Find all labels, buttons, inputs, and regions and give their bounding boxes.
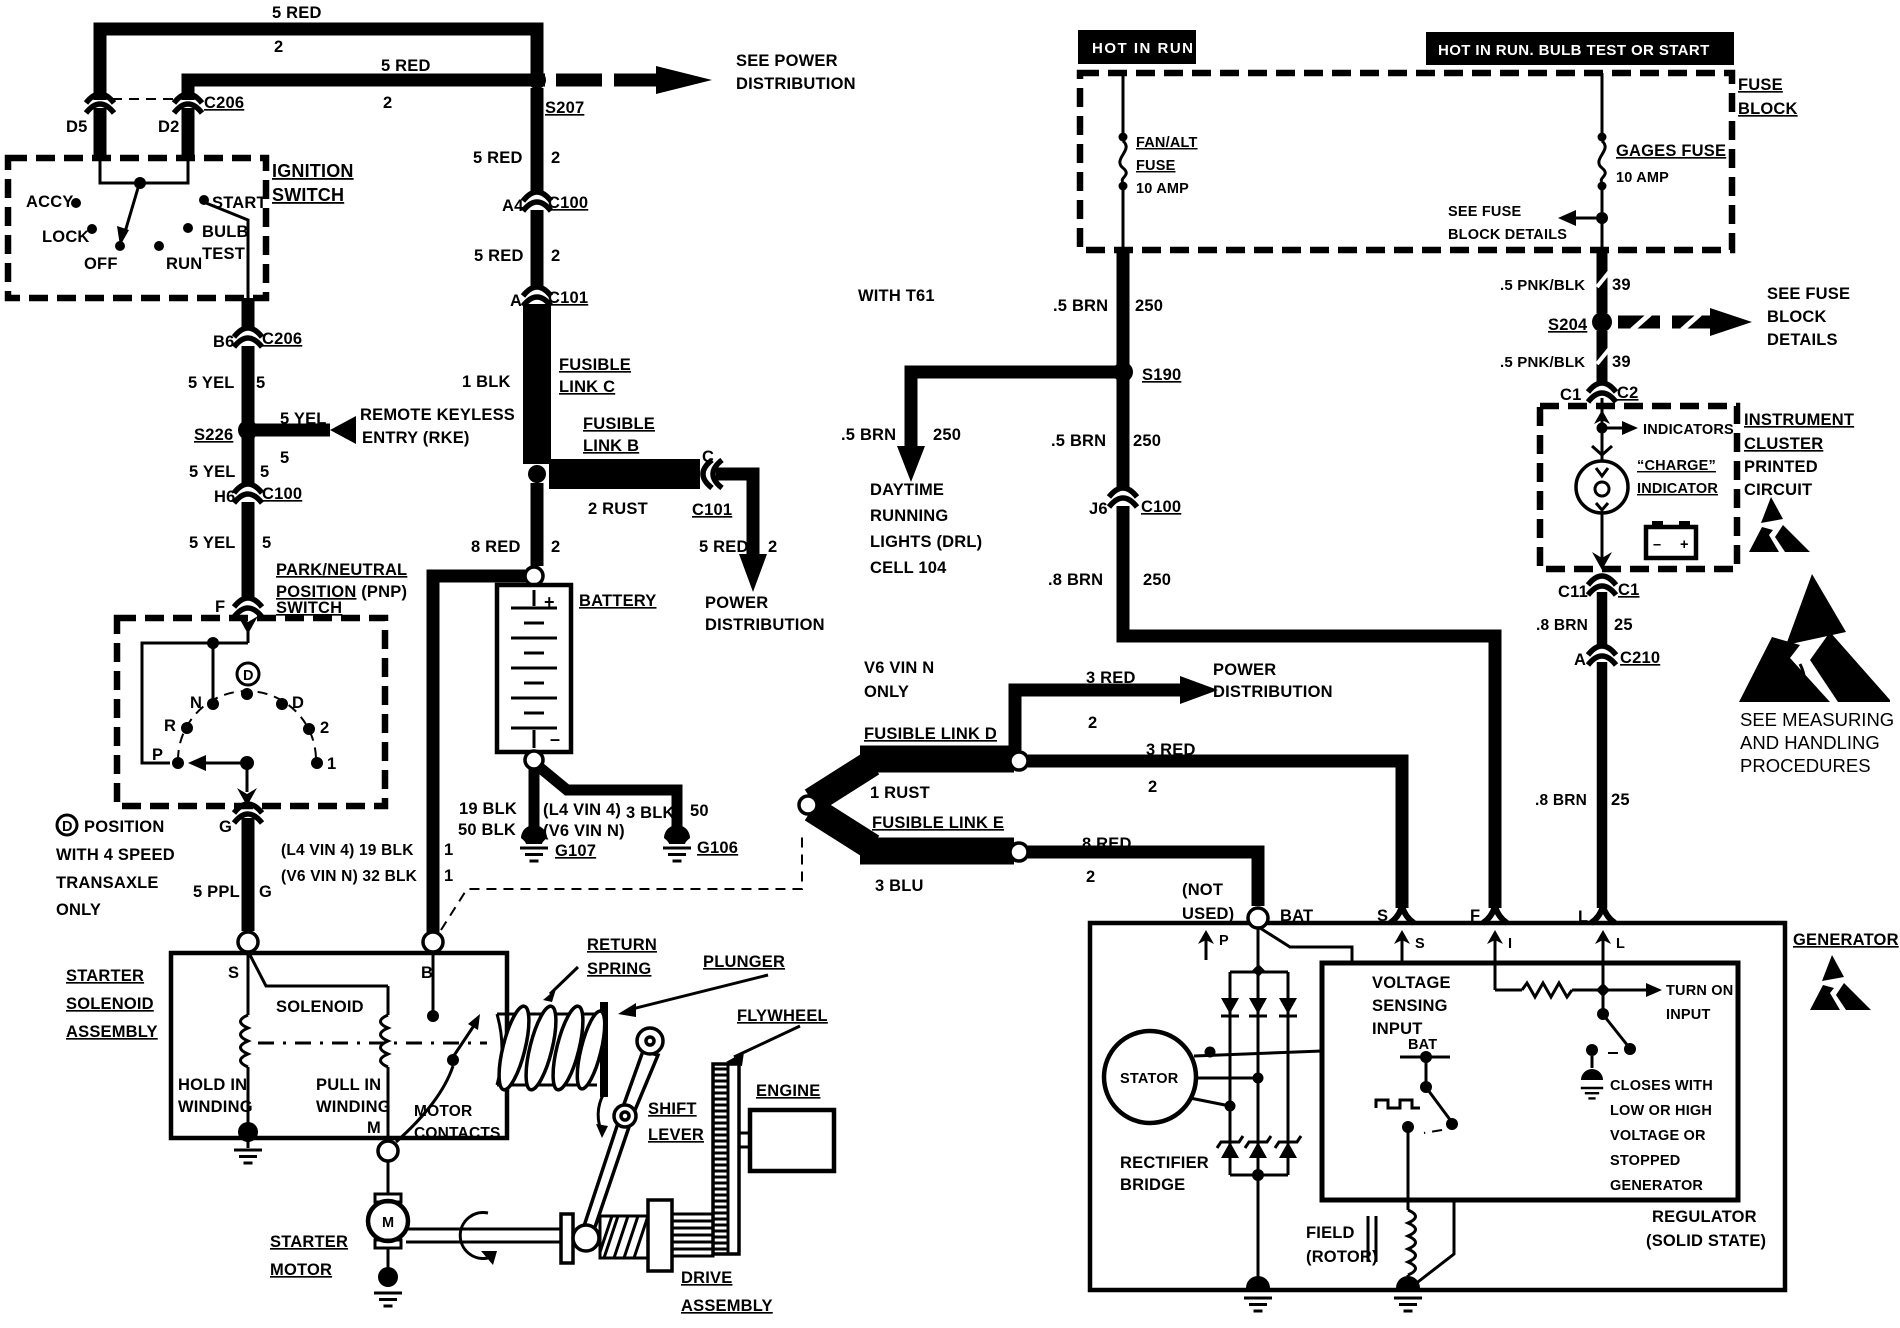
svg-text:5: 5 [256, 374, 265, 392]
connector C C101 (horizontal) [703, 460, 722, 488]
svg-text:C100: C100 [1141, 498, 1181, 516]
svg-text:2 RUST: 2 RUST [588, 500, 648, 518]
svg-text:5: 5 [280, 449, 289, 467]
svg-text:LIGHTS (DRL): LIGHTS (DRL) [870, 533, 982, 551]
svg-text:.5 BRN: .5 BRN [1053, 297, 1108, 315]
svg-text:2: 2 [768, 538, 777, 556]
connector J6 C100 [1109, 488, 1137, 507]
wire 8 RED to battery [531, 483, 544, 566]
svg-text:250: 250 [1135, 297, 1163, 315]
contact R [181, 722, 193, 734]
svg-text:TRANSAXLE: TRANSAXLE [56, 874, 159, 892]
svg-text:5 YEL: 5 YEL [189, 463, 236, 481]
svg-text:SWITCH: SWITCH [272, 185, 344, 205]
svg-text:1: 1 [444, 867, 453, 885]
wire 5 RED (top loop from D5 to S207) [100, 29, 537, 100]
svg-text:1: 1 [444, 841, 453, 859]
contact START [199, 195, 209, 205]
svg-text:SENSING: SENSING [1372, 997, 1448, 1015]
svg-text:C2: C2 [1617, 384, 1639, 402]
svg-text:VOLTAGE OR: VOLTAGE OR [1610, 1128, 1706, 1144]
ESD symbol small (cluster) [1749, 497, 1810, 552]
stator [1104, 1031, 1196, 1123]
svg-text:3 BLU: 3 BLU [875, 877, 924, 895]
svg-text:POWER: POWER [1213, 661, 1276, 679]
svg-text:G106: G106 [697, 839, 738, 857]
svg-text:DISTRIBUTION: DISTRIBUTION [1213, 683, 1333, 701]
svg-text:D5: D5 [66, 118, 88, 136]
wire D2 [182, 108, 195, 160]
connector C11 C1 [1588, 576, 1616, 595]
svg-text:ENTRY (RKE): ENTRY (RKE) [362, 429, 470, 447]
svg-text:CONTACTS: CONTACTS [414, 1125, 501, 1142]
svg-text:S204: S204 [1548, 316, 1588, 334]
svg-text:BRIDGE: BRIDGE [1120, 1176, 1185, 1194]
svg-text:A: A [1574, 651, 1586, 669]
inside arrow S [1401, 938, 1404, 963]
resistor and turn on input [1495, 989, 1522, 992]
svg-text:INSTRUMENT: INSTRUMENT [1744, 411, 1854, 429]
contact 2 [303, 723, 315, 735]
circle D indicator [237, 663, 259, 685]
wire 3 RED to power distribution [1015, 690, 1182, 757]
svg-text:5 RED: 5 RED [474, 247, 524, 265]
svg-text:SWITCH: SWITCH [276, 599, 342, 617]
motor contacts [432, 952, 435, 1012]
rectifier bridge [1252, 964, 1265, 977]
svg-text:2: 2 [551, 247, 560, 265]
svg-text:2: 2 [1148, 778, 1157, 796]
svg-text:S: S [228, 964, 239, 982]
svg-text:D2: D2 [158, 118, 180, 136]
svg-text:F: F [215, 598, 225, 616]
wire 5 PPL to S terminal [242, 818, 255, 931]
svg-text:D: D [243, 668, 254, 684]
contact D top [241, 688, 253, 700]
charge indicator [1601, 428, 1604, 460]
hold in winding [247, 955, 250, 1015]
link E right terminal [1010, 843, 1028, 861]
svg-text:SOLENOID: SOLENOID [276, 998, 364, 1016]
fuse block box [1080, 73, 1732, 250]
contact D [276, 698, 288, 710]
svg-text:A: A [510, 292, 522, 310]
svg-text:C100: C100 [548, 194, 588, 212]
wire ignition to B6 [242, 298, 255, 330]
contact LOCK [87, 224, 97, 234]
dashed link D5-D2 [112, 98, 176, 100]
svg-text:HOT IN RUN. BULB TEST OR START: HOT IN RUN. BULB TEST OR START [1438, 42, 1710, 59]
svg-text:B6: B6 [213, 333, 235, 351]
svg-text:(NOT: (NOT [1182, 881, 1223, 899]
svg-text:CLUSTER: CLUSTER [1744, 435, 1823, 453]
svg-text:D: D [292, 694, 304, 712]
svg-text:(ROTOR): (ROTOR) [1306, 1248, 1378, 1266]
contact N [207, 698, 219, 710]
junction S207 [528, 71, 546, 89]
wire .8 BRN 25 to L [1597, 662, 1608, 908]
svg-text:OFF: OFF [84, 255, 118, 273]
generator box [1090, 923, 1785, 1290]
junction S226 [238, 420, 258, 440]
svg-text:RUNNING: RUNNING [870, 507, 948, 525]
svg-text:.8 BRN: .8 BRN [1048, 571, 1103, 589]
svg-text:WINDING: WINDING [178, 1098, 253, 1116]
drive assembly [561, 1214, 573, 1263]
svg-text:G107: G107 [555, 842, 596, 860]
svg-text:ASSEMBLY: ASSEMBLY [66, 1023, 158, 1041]
contact RUN [154, 241, 164, 251]
svg-text:LINK C: LINK C [559, 378, 615, 396]
wire START to box bottom [206, 203, 248, 298]
svg-text:M: M [367, 1119, 381, 1137]
wire dashes to power distribution arrow [556, 74, 602, 87]
terminal BAT [1248, 908, 1268, 928]
rotation arrow [460, 1212, 488, 1258]
svg-text:D: D [62, 819, 73, 835]
pull in winding [387, 986, 390, 1015]
svg-text:FUSE: FUSE [1738, 76, 1783, 94]
svg-text:PARK/NEUTRAL: PARK/NEUTRAL [276, 561, 407, 579]
S terminal [238, 932, 258, 952]
svg-text:FIELD: FIELD [1306, 1224, 1355, 1242]
svg-text:TEST: TEST [202, 245, 245, 263]
ground below hold-in [247, 1140, 250, 1148]
svg-text:2: 2 [320, 719, 329, 737]
svg-text:PRINTED: PRINTED [1744, 458, 1818, 476]
svg-text:C206: C206 [262, 330, 302, 348]
return spring coils [493, 1004, 610, 1093]
svg-text:2: 2 [551, 149, 560, 167]
svg-text:5 YEL: 5 YEL [188, 374, 235, 392]
node to indicators [1597, 423, 1608, 434]
ESD symbol large [1739, 574, 1890, 702]
wire S190 branch to DRL [911, 372, 1117, 448]
svg-text:I: I [1508, 936, 1512, 952]
svg-text:WINDING: WINDING [316, 1098, 391, 1116]
battery icon [1652, 521, 1663, 528]
svg-text:C11: C11 [1558, 583, 1588, 601]
plunger link dash line [258, 1042, 487, 1045]
svg-text:+: + [1680, 537, 1689, 553]
svg-text:HOLD IN: HOLD IN [178, 1076, 247, 1094]
svg-text:C101: C101 [548, 289, 588, 307]
wire branch to RKE [256, 424, 330, 437]
svg-text:GENERATOR: GENERATOR [1610, 1178, 1703, 1194]
svg-text:RETURN: RETURN [587, 936, 657, 954]
dashed line links to B terminal [441, 836, 802, 930]
svg-text:–: – [1653, 537, 1661, 553]
terminal L [1591, 906, 1615, 923]
svg-text:(L4 VIN 4): (L4 VIN 4) [543, 801, 621, 819]
svg-text:J6: J6 [1089, 500, 1108, 518]
contact BULB TEST [183, 223, 193, 233]
svg-text:N: N [190, 694, 202, 712]
svg-text:(V6 VIN N): (V6 VIN N) [543, 822, 625, 840]
PNP switch box [117, 618, 385, 806]
wire out of indicator [1601, 513, 1604, 562]
svg-text:LINK B: LINK B [583, 437, 639, 455]
connector A4 C100 [523, 192, 551, 211]
svg-text:VOLTAGE: VOLTAGE [1372, 974, 1451, 992]
svg-text:1 BLK: 1 BLK [462, 373, 511, 391]
svg-text:DETAILS: DETAILS [1767, 331, 1838, 349]
fusible link B bar [549, 459, 700, 489]
svg-text:C101: C101 [692, 501, 732, 519]
svg-text:50 BLK: 50 BLK [458, 821, 516, 839]
svg-text:WITH T61: WITH T61 [858, 287, 935, 305]
field rotor [1407, 1132, 1410, 1210]
svg-text:V6 VIN N: V6 VIN N [864, 659, 934, 677]
connector H6 C100 [234, 484, 262, 503]
svg-text:ACCY: ACCY [26, 193, 74, 211]
svg-text:CIRCUIT: CIRCUIT [1744, 481, 1812, 499]
svg-text:2: 2 [1086, 868, 1095, 886]
BAT wires inside [1257, 928, 1260, 966]
svg-text:(V6 VIN N) 32 BLK: (V6 VIN N) 32 BLK [281, 868, 418, 885]
svg-text:ONLY: ONLY [56, 901, 101, 919]
wire 5 YEL to PNP [242, 502, 255, 600]
M terminal [378, 1141, 398, 1161]
svg-text:SEE FUSE: SEE FUSE [1767, 285, 1850, 303]
wire .5 PNK/BLK to S204 [1597, 250, 1608, 313]
switch arm to OFF [125, 188, 138, 232]
wire battery+ to B terminal [433, 576, 525, 932]
svg-text:.5 PNK/BLK: .5 PNK/BLK [1500, 277, 1585, 294]
svg-text:P: P [152, 746, 163, 764]
wire .8 BRN 250 to generator F [1123, 506, 1495, 908]
link vertex terminal [799, 796, 817, 814]
svg-text:RECTIFIER: RECTIFIER [1120, 1154, 1209, 1172]
svg-text:250: 250 [1133, 432, 1161, 450]
wire 5 YEL to S226 [242, 346, 255, 424]
svg-text:C100: C100 [262, 485, 302, 503]
battery - terminal [525, 751, 543, 769]
svg-text:“CHARGE”: “CHARGE” [1637, 458, 1716, 474]
svg-text:TURN ON: TURN ON [1666, 983, 1733, 999]
svg-text:G: G [259, 883, 272, 901]
wire 5 RED S207 to A4 [531, 88, 544, 194]
svg-text:S: S [1415, 936, 1425, 952]
plunger body [497, 1014, 597, 1085]
svg-text:POWER: POWER [705, 594, 768, 612]
svg-text:FLYWHEEL: FLYWHEEL [737, 1007, 828, 1025]
svg-text:STARTER: STARTER [66, 967, 144, 985]
svg-text:REMOTE KEYLESS: REMOTE KEYLESS [360, 406, 515, 424]
svg-text:5 PPL: 5 PPL [193, 883, 240, 901]
svg-text:ENGINE: ENGINE [756, 1082, 820, 1100]
splice S204 [1592, 312, 1612, 332]
svg-text:FUSIBLE: FUSIBLE [583, 415, 655, 433]
gages fuse [1601, 73, 1604, 135]
connector D2 C206 [174, 94, 202, 113]
svg-text:10 AMP: 10 AMP [1136, 181, 1189, 197]
svg-text:USED): USED) [1182, 905, 1234, 923]
wire D5 [94, 108, 107, 160]
svg-text:3 RED: 3 RED [1146, 741, 1196, 759]
wire 5 YEL to H6 [242, 436, 255, 486]
svg-text:CELL 104: CELL 104 [870, 559, 947, 577]
svg-text:LEVER: LEVER [648, 1126, 704, 1144]
fan/alt fuse [1122, 73, 1125, 135]
shift lever [619, 1051, 658, 1122]
ESD symbol small (generator) [1810, 955, 1871, 1010]
svg-text:39: 39 [1612, 276, 1631, 294]
svg-text:2: 2 [383, 94, 392, 112]
svg-text:INDICATORS: INDICATORS [1643, 422, 1734, 438]
svg-text:GENERATOR: GENERATOR [1793, 931, 1899, 949]
node pivot [134, 177, 146, 189]
link D right terminal [1010, 752, 1028, 770]
svg-text:DAYTIME: DAYTIME [870, 481, 944, 499]
svg-text:25: 25 [1611, 791, 1630, 809]
svg-text:5 RED: 5 RED [473, 149, 523, 167]
starter solenoid assembly box [171, 953, 507, 1138]
svg-text:C210: C210 [1620, 649, 1660, 667]
contact P [172, 757, 184, 769]
ground G106 [663, 825, 691, 861]
svg-text:5 YEL: 5 YEL [280, 410, 327, 428]
starter motor [387, 1161, 390, 1194]
svg-text:.5 BRN: .5 BRN [1051, 432, 1106, 450]
interior wires [142, 643, 248, 763]
connector D5 [86, 94, 114, 113]
svg-text:DISTRIBUTION: DISTRIBUTION [705, 616, 825, 634]
svg-text:SEE POWER: SEE POWER [736, 52, 838, 70]
svg-text:STOPPED: STOPPED [1610, 1153, 1680, 1169]
wire 5 RED to power distribution arrow [716, 474, 753, 556]
header HOT IN RUN BULB TEST OR START [1426, 32, 1734, 65]
svg-text:INPUT: INPUT [1372, 1020, 1423, 1038]
svg-text:2: 2 [551, 538, 560, 556]
contact ACCY [71, 198, 81, 208]
svg-text:SOLENOID: SOLENOID [66, 995, 154, 1013]
wiper arrow to P [240, 756, 254, 770]
svg-text:.8 BRN: .8 BRN [1536, 617, 1588, 634]
svg-text:BLOCK DETAILS: BLOCK DETAILS [1448, 227, 1567, 243]
fusible link C [523, 304, 551, 464]
svg-text:DRIVE: DRIVE [681, 1269, 732, 1287]
connector F into PNP [234, 598, 262, 617]
svg-text:250: 250 [1143, 571, 1171, 589]
svg-text:.5 PNK/BLK: .5 PNK/BLK [1500, 354, 1585, 371]
svg-text:F: F [1470, 907, 1480, 925]
svg-text:–: – [550, 729, 560, 749]
fusible link E [812, 809, 872, 847]
note (D) position with 4 speed transaxle only [57, 815, 77, 835]
battery + terminal [525, 567, 543, 585]
svg-text:INDICATOR: INDICATOR [1637, 481, 1718, 497]
wire .5 PNK/BLK to C2 [1597, 331, 1608, 385]
fusible link D [812, 763, 872, 801]
svg-text:SPRING: SPRING [587, 960, 651, 978]
svg-text:FUSIBLE: FUSIBLE [559, 356, 631, 374]
svg-text:5: 5 [262, 534, 271, 552]
inside arrow L [1602, 938, 1605, 1012]
svg-text:2: 2 [274, 38, 283, 56]
svg-text:BLOCK: BLOCK [1767, 308, 1827, 326]
B terminal [423, 932, 443, 952]
regulator box [1322, 963, 1738, 1200]
junction below link C [528, 465, 546, 483]
svg-text:(SOLID STATE): (SOLID STATE) [1646, 1232, 1766, 1250]
svg-text:10 AMP: 10 AMP [1616, 170, 1669, 186]
svg-text:FUSIBLE LINK D: FUSIBLE LINK D [864, 725, 997, 743]
svg-text:REGULATOR: REGULATOR [1652, 1208, 1757, 1226]
exit arrow down [246, 763, 249, 792]
header HOT IN RUN [1078, 30, 1196, 64]
svg-text:H6: H6 [214, 488, 236, 506]
svg-text:LOCK: LOCK [42, 228, 90, 246]
svg-text:8 RED: 8 RED [471, 538, 521, 556]
wire .8 BRN 25 [1597, 592, 1608, 648]
svg-text:MOTOR: MOTOR [414, 1103, 472, 1120]
svg-text:FUSE: FUSE [1136, 158, 1176, 174]
wire 3 RED to generator S [1028, 761, 1402, 908]
connector B6 C206 [234, 328, 262, 347]
instrument cluster box [1540, 406, 1737, 569]
svg-text:AND HANDLING: AND HANDLING [1740, 732, 1880, 753]
svg-text:FUSIBLE LINK E: FUSIBLE LINK E [872, 814, 1004, 832]
svg-text:1: 1 [327, 755, 336, 773]
svg-text:STARTER: STARTER [270, 1233, 348, 1251]
svg-text:SEE MEASURING: SEE MEASURING [1740, 709, 1894, 730]
svg-text:BAT: BAT [1408, 1037, 1437, 1053]
dashed arrow see fuse block details [1618, 316, 1660, 329]
svg-text:GAGES FUSE: GAGES FUSE [1616, 142, 1726, 160]
svg-text:CLOSES WITH: CLOSES WITH [1610, 1078, 1713, 1094]
svg-text:G: G [219, 818, 232, 836]
svg-text:SHIFT: SHIFT [648, 1100, 697, 1118]
contact OFF [115, 241, 125, 251]
svg-text:C1: C1 [1618, 581, 1640, 599]
svg-text:25: 25 [1614, 616, 1633, 634]
connector A C101 [523, 287, 551, 306]
svg-text:C1: C1 [1560, 386, 1582, 404]
svg-text:50: 50 [690, 802, 709, 820]
contact 1 [311, 757, 323, 769]
svg-text:5 RED: 5 RED [381, 57, 431, 75]
svg-text:PLUNGER: PLUNGER [703, 953, 785, 971]
svg-text:L: L [1616, 936, 1625, 952]
svg-text:DISTRIBUTION: DISTRIBUTION [736, 75, 856, 93]
svg-text:BULB: BULB [202, 223, 249, 241]
svg-text:19 BLK: 19 BLK [459, 800, 517, 818]
svg-text:B: B [421, 964, 433, 982]
svg-text:3 BLK: 3 BLK [626, 804, 675, 822]
svg-text:HOT IN RUN: HOT IN RUN [1092, 40, 1195, 57]
svg-text:SEE FUSE: SEE FUSE [1448, 204, 1521, 220]
wire into cluster [1601, 398, 1604, 428]
svg-text:1 RUST: 1 RUST [870, 784, 930, 802]
svg-text:5 YEL: 5 YEL [189, 534, 236, 552]
svg-text:STATOR: STATOR [1120, 1071, 1179, 1087]
svg-text:C206: C206 [204, 94, 244, 112]
terminal S [1390, 906, 1414, 923]
svg-text:WITH 4 SPEED: WITH 4 SPEED [56, 846, 175, 864]
svg-text:PROCEDURES: PROCEDURES [1740, 755, 1871, 776]
svg-text:BAT: BAT [1280, 907, 1313, 925]
inside arrow P [1205, 938, 1208, 960]
flywheel [713, 1064, 739, 1254]
svg-text:BLOCK: BLOCK [1738, 100, 1798, 118]
ignition switch box [8, 158, 266, 298]
svg-text:ONLY: ONLY [864, 683, 909, 701]
wire 5 RED (D2 to S207) [188, 80, 545, 100]
svg-text:A4: A4 [502, 197, 524, 215]
battery [497, 585, 571, 752]
entry arrow down [238, 616, 258, 634]
